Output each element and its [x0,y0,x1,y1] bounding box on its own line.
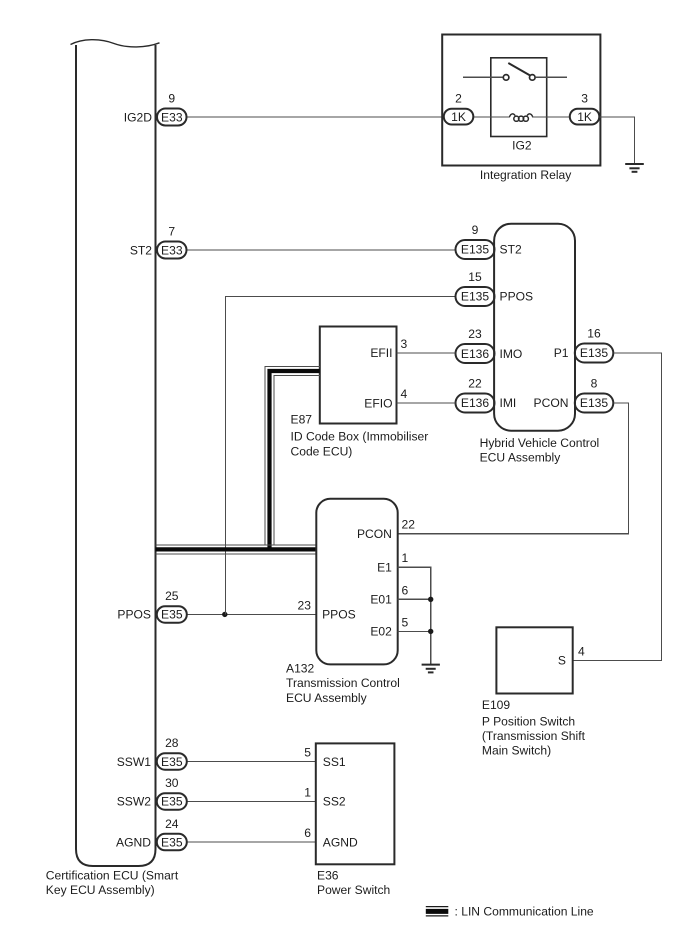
svg-text:ST2: ST2 [130,243,152,257]
svg-text:E36: E36 [317,869,339,883]
wire PPOS bus to A132 [187,613,317,615]
svg-text:Integration Relay: Integration Relay [480,168,572,182]
wire IG2D to relay [187,116,444,118]
svg-text:E135: E135 [580,396,609,410]
integration relay outer box [442,35,600,166]
bus pin IG2D E33 [124,92,187,126]
wire PPOS15 from E135 down [226,297,456,615]
svg-text:4: 4 [578,644,585,658]
wire PCON to A132 pin22 [398,403,629,534]
wire P1 to E109 [573,353,662,660]
svg-text:IG2: IG2 [512,138,532,152]
svg-text:Key ECU Assembly): Key ECU Assembly) [46,883,155,897]
svg-text:22: 22 [468,377,482,391]
E87 ID code box [320,327,397,424]
E87 pin EFIO 4 [364,387,407,410]
svg-text:E135: E135 [461,290,490,304]
svg-text:5: 5 [402,615,409,629]
caption certification ECU [46,869,179,898]
HV pin P1 16 E135 [554,327,614,363]
svg-text:4: 4 [401,387,408,401]
svg-text:25: 25 [165,589,179,603]
svg-text:ST2: ST2 [500,243,522,257]
svg-text:PCON: PCON [357,527,392,541]
bus pin AGND E35 [116,817,187,851]
relay switch contact [463,63,567,80]
wire relay to ground [599,117,634,163]
relay pin 2 1K [444,92,474,125]
svg-text:P Position Switch: P Position Switch [482,714,575,728]
svg-text:24: 24 [165,817,179,831]
svg-text:ECU Assembly: ECU Assembly [286,691,368,705]
bus pin ST2 E33 [130,225,187,259]
svg-text:9: 9 [472,223,479,237]
svg-text:IMI: IMI [500,396,517,410]
svg-text:SSW1: SSW1 [117,755,152,769]
svg-text:IMO: IMO [500,347,523,361]
svg-text:23: 23 [298,598,312,612]
svg-text:PPOS: PPOS [322,608,356,622]
svg-text:Certification ECU (Smart: Certification ECU (Smart [46,869,179,883]
A132 pin E01 6 [370,583,408,606]
svg-text:PPOS: PPOS [117,608,151,622]
hybrid vehicle control ECU box [494,224,575,431]
svg-text:Code ECU): Code ECU) [291,445,353,459]
svg-text:SSW2: SSW2 [117,795,152,809]
A132 pin E02 5 [370,615,408,638]
A132 pin PCON 22 [357,518,415,541]
svg-text:E1: E1 [377,561,392,575]
svg-text:PPOS: PPOS [500,290,534,304]
svg-text:Power Switch: Power Switch [317,883,390,897]
svg-text:1: 1 [402,551,409,565]
caption A132 [286,661,400,705]
ground relay [625,164,644,172]
E87 pin EFII 3 [370,337,407,360]
svg-text:E136: E136 [461,347,490,361]
svg-text:30: 30 [165,776,179,790]
junction dot E02 [428,629,433,634]
svg-text:8: 8 [591,377,598,391]
wire E01 [398,598,431,600]
svg-text:PCON: PCON [534,396,569,410]
svg-text:S: S [558,654,566,668]
svg-text:6: 6 [402,583,409,597]
E109 P position switch box [496,627,572,693]
svg-text:EFII: EFII [370,346,392,360]
svg-text:1K: 1K [451,110,466,124]
HV pin PPOS 15 E135 [456,270,534,306]
svg-text:1K: 1K [577,110,592,124]
HV pin PCON 8 E135 [534,377,614,413]
svg-text:E02: E02 [370,625,392,639]
wire SSW2 to E36 [187,800,316,802]
HV pin IMI 22 E136 [456,377,517,413]
caption hybrid vehicle control [480,436,600,465]
bus pin PPOS E35 [117,589,186,623]
relay coil [473,114,570,121]
svg-text:P1: P1 [554,346,569,360]
relay IG2 inner box [491,58,547,137]
svg-text:15: 15 [468,270,482,284]
legend LIN symbol [426,904,594,918]
svg-text:3: 3 [401,337,408,351]
wire SSW1 to E36 [187,761,316,763]
certification ECU bus body [71,40,160,866]
svg-text:ECU Assembly: ECU Assembly [480,450,562,464]
svg-text:E35: E35 [161,835,183,849]
E109 pin S 4 [558,644,585,667]
svg-text:SS2: SS2 [323,795,346,809]
svg-text:Main Switch): Main Switch) [482,744,551,758]
ground A132 [422,665,440,673]
svg-text:E35: E35 [161,795,183,809]
svg-text:SS1: SS1 [323,755,346,769]
E36 pin SS2 1 [304,785,346,808]
A132 transmission control ECU box [316,499,397,665]
svg-text:22: 22 [402,518,416,532]
E36 pin SS1 5 [304,746,346,769]
junction dot E01 [428,597,433,602]
svg-text:16: 16 [587,327,601,341]
caption E36 [317,869,390,898]
bus pin SSW2 E35 [117,776,187,810]
svg-text:AGND: AGND [116,835,151,849]
wire ST2 to E135 [187,249,456,251]
bus pin SSW1 E35 [117,736,187,770]
svg-text:E01: E01 [370,593,392,607]
relay pin 3 1K [570,92,600,125]
svg-text:Transmission Control: Transmission Control [286,676,400,690]
svg-text:E33: E33 [161,243,183,257]
svg-text:E135: E135 [461,243,490,257]
E36 pin AGND 6 [304,826,358,849]
svg-text:E87: E87 [291,412,313,426]
svg-text:A132: A132 [286,661,315,675]
wire EFII to E136 [397,352,456,354]
svg-text:(Transmission Shift: (Transmission Shift [482,729,586,743]
svg-text:3: 3 [581,92,588,106]
svg-text:1: 1 [304,785,311,799]
svg-text:23: 23 [468,327,482,341]
wire E02 [398,630,431,632]
svg-text:2: 2 [455,92,462,106]
svg-text:Hybrid Vehicle Control: Hybrid Vehicle Control [480,436,600,450]
A132 pin E1 1 [377,551,408,574]
svg-text:9: 9 [168,92,175,106]
svg-text:E136: E136 [461,396,490,410]
junction dot PPOS node [222,612,227,617]
svg-text:AGND: AGND [323,835,358,849]
wire E1 [398,567,431,664]
LIN companion thin lines [156,366,320,554]
wire AGND to E36 [187,841,316,843]
svg-text:ID Code Box (Immobiliser: ID Code Box (Immobiliser [291,430,429,444]
svg-text:7: 7 [168,225,175,239]
caption E87 [291,412,429,458]
svg-text:6: 6 [304,826,311,840]
LIN line thick runs [156,371,320,549]
svg-text:IG2D: IG2D [124,110,152,124]
svg-text:28: 28 [165,736,179,750]
svg-text:E35: E35 [161,608,183,622]
svg-text:E109: E109 [482,698,511,712]
svg-text:E33: E33 [161,110,183,124]
svg-text:E35: E35 [161,755,183,769]
svg-text:5: 5 [304,746,311,760]
A132 pin PPOS 23 [298,598,356,621]
svg-text:EFIO: EFIO [364,396,392,410]
wire EFIO to E136 [397,402,456,404]
HV pin IMO 23 E136 [456,327,523,363]
caption E109 [482,698,586,757]
svg-text:E135: E135 [580,346,609,360]
HV pin ST2 9 E135 [456,223,522,259]
E36 power switch box [316,743,395,864]
svg-text:: LIN Communication Line: : LIN Communication Line [455,904,594,918]
